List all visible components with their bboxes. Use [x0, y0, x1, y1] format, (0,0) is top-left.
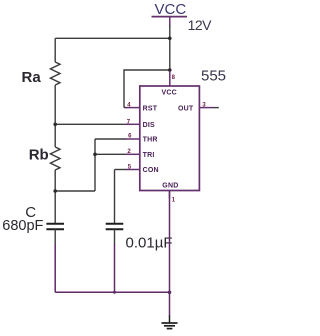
- node VCC/rail junction: [168, 37, 172, 41]
- pin 8 stub VCC: [169, 71, 171, 86]
- wire THR branch vertical: [94, 139, 96, 191]
- wire Ra bottom to Rb: [54, 85, 56, 147]
- wire OUT tail: [214, 107, 219, 109]
- svg-text:DIS: DIS: [143, 122, 155, 129]
- pin 6 stub THR: [126, 138, 140, 140]
- svg-text:THR: THR: [143, 137, 158, 144]
- wire CON horizontal: [115, 169, 127, 171]
- svg-text:680pF: 680pF: [2, 218, 43, 234]
- svg-text:GND: GND: [162, 182, 178, 189]
- svg-text:OUT: OUT: [178, 105, 194, 112]
- pin 1 stub GND: [169, 191, 171, 199]
- wire C2 bottom to ground rail: [114, 244, 116, 292]
- svg-text:Ra: Ra: [22, 69, 42, 86]
- resistor Ra: [50, 62, 60, 85]
- svg-text:Rb: Rb: [29, 146, 49, 163]
- wire jog to Rb bottom: [55, 190, 95, 192]
- node RST/VCC junction: [168, 68, 172, 72]
- wire RST stub horizontal: [124, 107, 126, 109]
- wire Ra top lead: [54, 38, 56, 62]
- svg-text:555: 555: [201, 67, 226, 84]
- pin 7 stub DIS: [126, 123, 140, 125]
- ground: [162, 316, 178, 329]
- svg-text:12V: 12V: [188, 17, 213, 33]
- wire VCC vertical to pin 8: [169, 26, 171, 71]
- wire RST up and over to VCC: [124, 70, 170, 108]
- svg-text:VCC: VCC: [162, 90, 177, 97]
- wire THR horizontal: [95, 138, 126, 140]
- wire Rb bottom to capacitor C: [54, 170, 56, 223]
- node Ra/Rb/DIS junction: [53, 123, 57, 127]
- svg-text:CON: CON: [143, 167, 159, 174]
- pin 2 stub TRI: [126, 153, 140, 155]
- resistor Rb: [50, 147, 60, 170]
- svg-text:RST: RST: [143, 105, 158, 112]
- wire GND pin to ground: [169, 191, 171, 317]
- svg-text:VCC: VCC: [155, 1, 187, 18]
- svg-text:TRI: TRI: [143, 152, 155, 159]
- pin 4 stub RST: [126, 107, 140, 109]
- node Rb/C/THR junction: [53, 189, 57, 193]
- pin 3 stub OUT: [199, 107, 213, 109]
- node C2/rail junction: [113, 291, 116, 294]
- wire CON vertical to 0.01uF: [114, 170, 116, 224]
- power symbol VCC: [152, 1, 188, 27]
- svg-text:0.01µF: 0.01µF: [126, 234, 173, 251]
- capacitor C2 0.01uF: [106, 224, 124, 245]
- wire DIS horizontal: [55, 123, 126, 125]
- wire TRI horizontal: [95, 153, 126, 155]
- node THR/TRI junction: [93, 153, 97, 157]
- capacitor C: [46, 224, 64, 245]
- wire C bottom to ground rail: [54, 244, 56, 292]
- wire ground rail: [55, 291, 169, 293]
- node rail/ground junction: [168, 291, 172, 295]
- wire top rail to Ra: [55, 37, 170, 39]
- op-amp U1 555 timer body: [140, 86, 200, 191]
- pin 5 stub CON: [126, 169, 140, 171]
